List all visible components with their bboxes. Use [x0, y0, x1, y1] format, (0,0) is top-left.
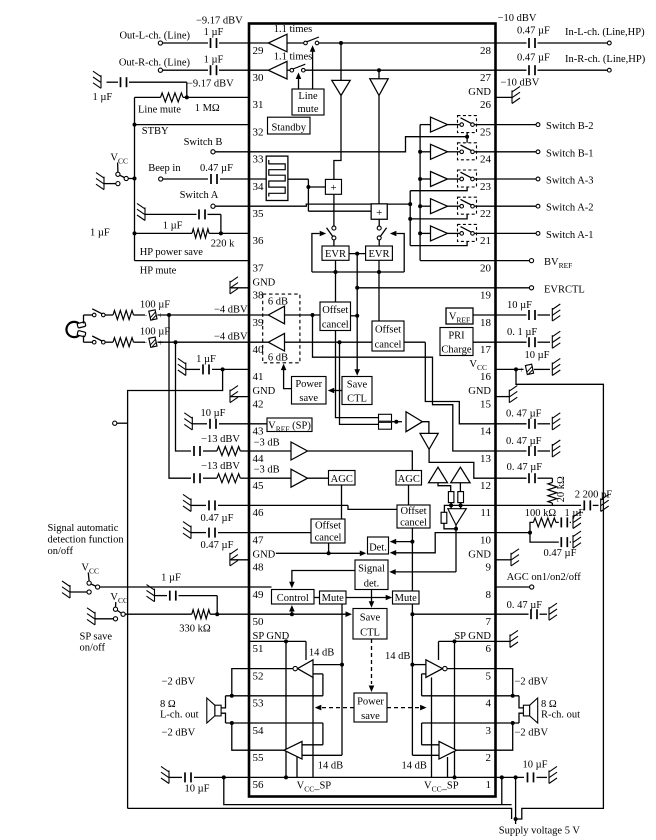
svg-text:SP GND: SP GND — [253, 631, 290, 642]
svg-text:VCC_SP: VCC_SP — [297, 781, 332, 794]
svg-text:AGC: AGC — [398, 474, 420, 485]
svg-text:CTL: CTL — [360, 628, 380, 639]
svg-text:3: 3 — [486, 725, 492, 737]
svg-text:51: 51 — [253, 643, 264, 655]
svg-text:−2 dBV: −2 dBV — [162, 728, 196, 739]
svg-text:Supply voltage 5 V: Supply voltage 5 V — [499, 826, 581, 837]
svg-text:Beep in: Beep in — [148, 163, 181, 174]
svg-text:5: 5 — [486, 670, 492, 682]
svg-text:VCC: VCC — [110, 153, 128, 166]
svg-text:−3 dB: −3 dB — [254, 438, 280, 449]
svg-text:0.47 µF: 0.47 µF — [201, 540, 234, 551]
svg-text:PRI: PRI — [448, 330, 465, 341]
svg-text:23: 23 — [480, 181, 492, 193]
svg-text:0.47 µF: 0.47 µF — [544, 548, 577, 559]
svg-text:10 µF: 10 µF — [507, 300, 532, 311]
svg-text:220 k: 220 k — [211, 239, 235, 250]
svg-text:GND: GND — [468, 386, 491, 397]
svg-text:10: 10 — [480, 534, 492, 546]
svg-text:CTL: CTL — [347, 393, 367, 404]
svg-text:8: 8 — [486, 589, 492, 601]
svg-text:−10 dBV: −10 dBV — [498, 13, 537, 24]
svg-text:Out-L-ch. (Line): Out-L-ch. (Line) — [119, 31, 190, 42]
svg-text:0. 47 µF: 0. 47 µF — [506, 436, 542, 447]
svg-text:27: 27 — [480, 72, 492, 84]
svg-text:0.47 µF: 0.47 µF — [201, 513, 234, 524]
svg-text:Charge: Charge — [441, 344, 471, 355]
svg-text:EVR: EVR — [325, 249, 346, 260]
svg-text:0.47 µF: 0.47 µF — [517, 53, 550, 64]
svg-text:+: + — [376, 207, 382, 219]
svg-text:44: 44 — [253, 453, 265, 465]
svg-text:10 µF: 10 µF — [184, 784, 209, 795]
svg-text:−2 dBV: −2 dBV — [515, 728, 549, 739]
svg-text:Switch A-2: Switch A-2 — [546, 203, 594, 214]
svg-text:Line mute: Line mute — [138, 105, 181, 116]
svg-text:46: 46 — [253, 507, 265, 519]
svg-text:−: − — [143, 338, 148, 347]
svg-text:cancel: cancel — [400, 517, 427, 528]
svg-text:14 dB: 14 dB — [309, 648, 334, 659]
svg-text:42: 42 — [253, 398, 264, 410]
svg-text:14 dB: 14 dB — [402, 761, 427, 772]
svg-text:+: + — [330, 182, 336, 194]
svg-text:Power: Power — [357, 696, 384, 707]
svg-text:1 µF: 1 µF — [204, 27, 224, 38]
svg-text:−13 dBV: −13 dBV — [201, 461, 240, 472]
svg-text:AGC: AGC — [331, 474, 353, 485]
svg-text:SP GND: SP GND — [454, 631, 491, 642]
svg-text:30: 30 — [253, 72, 265, 84]
svg-text:20 kΩ: 20 kΩ — [556, 476, 567, 502]
svg-text:21: 21 — [480, 235, 491, 247]
svg-text:In-L-ch. (Line,HP): In-L-ch. (Line,HP) — [565, 27, 645, 38]
svg-text:56: 56 — [253, 779, 265, 791]
svg-text:cancel: cancel — [315, 532, 342, 543]
svg-text:on/off: on/off — [48, 546, 74, 557]
svg-text:save: save — [361, 711, 380, 722]
svg-text:1 µF: 1 µF — [196, 354, 216, 365]
svg-text:Offset: Offset — [315, 520, 341, 531]
svg-text:0. 47 µF: 0. 47 µF — [507, 600, 543, 611]
svg-text:Signal: Signal — [358, 564, 385, 575]
svg-text:Line: Line — [298, 91, 318, 102]
svg-text:8 Ω: 8 Ω — [541, 699, 557, 710]
svg-text:BVREF: BVREF — [544, 257, 572, 270]
svg-text:100 kΩ: 100 kΩ — [525, 508, 557, 519]
svg-text:Offset: Offset — [322, 305, 348, 316]
svg-text:1 µF: 1 µF — [163, 221, 183, 232]
svg-text:cancel: cancel — [375, 340, 402, 351]
svg-text:−3 dB: −3 dB — [254, 465, 280, 476]
svg-text:52: 52 — [253, 670, 264, 682]
svg-text:14: 14 — [480, 426, 492, 438]
svg-text:−: − — [535, 366, 540, 375]
svg-text:50: 50 — [253, 616, 265, 628]
svg-text:0.47 µF: 0.47 µF — [517, 26, 550, 37]
svg-text:−4 dBV: −4 dBV — [214, 332, 248, 343]
svg-text:Mute: Mute — [322, 593, 345, 604]
svg-text:Signal automatic: Signal automatic — [48, 523, 119, 534]
svg-text:2 200 pF: 2 200 pF — [575, 490, 613, 501]
svg-text:GND: GND — [253, 277, 276, 288]
svg-text:on/off: on/off — [80, 642, 106, 653]
svg-text:L-ch. out: L-ch. out — [160, 710, 199, 721]
svg-text:12: 12 — [480, 480, 491, 492]
svg-text:35: 35 — [253, 208, 265, 220]
svg-text:detection function: detection function — [48, 535, 125, 546]
svg-text:29: 29 — [253, 45, 265, 57]
svg-text:330 kΩ: 330 kΩ — [179, 624, 211, 635]
svg-text:43: 43 — [253, 426, 265, 438]
svg-text:24: 24 — [480, 154, 492, 166]
svg-text:33: 33 — [253, 154, 265, 166]
svg-text:Power: Power — [295, 379, 322, 390]
svg-text:48: 48 — [253, 562, 265, 574]
svg-text:Offset: Offset — [400, 506, 426, 517]
svg-text:6: 6 — [486, 643, 492, 655]
svg-text:+: + — [519, 366, 524, 375]
svg-text:VCC: VCC — [81, 563, 99, 576]
svg-text:−9.17 dBV: −9.17 dBV — [196, 16, 243, 27]
svg-text:13: 13 — [480, 453, 492, 465]
svg-text:R-ch. out: R-ch. out — [541, 710, 580, 721]
svg-text:1 µF: 1 µF — [565, 508, 585, 519]
svg-text:8 Ω: 8 Ω — [160, 699, 176, 710]
svg-text:16: 16 — [480, 371, 492, 383]
svg-text:10 µF: 10 µF — [522, 760, 547, 771]
svg-text:10 µF: 10 µF — [200, 408, 225, 419]
svg-text:VCC: VCC — [110, 592, 128, 605]
svg-text:−2 dBV: −2 dBV — [515, 677, 549, 688]
svg-text:41: 41 — [253, 371, 264, 383]
svg-text:31: 31 — [253, 99, 264, 111]
svg-text:14 dB: 14 dB — [385, 651, 410, 662]
svg-text:9: 9 — [486, 562, 492, 574]
svg-text:Standby: Standby — [272, 122, 307, 133]
svg-text:55: 55 — [253, 752, 265, 764]
svg-text:100 µF: 100 µF — [140, 300, 170, 311]
svg-text:1 µF: 1 µF — [93, 92, 113, 103]
svg-text:0. 1 µF: 0. 1 µF — [507, 327, 537, 338]
svg-text:−4 dBV: −4 dBV — [214, 305, 248, 316]
svg-text:18: 18 — [480, 317, 492, 329]
svg-text:1 µF: 1 µF — [161, 573, 181, 584]
svg-text:GND: GND — [253, 386, 276, 397]
svg-text:32: 32 — [253, 126, 264, 138]
svg-text:mute: mute — [298, 104, 319, 115]
svg-text:STBY: STBY — [142, 126, 169, 137]
svg-text:In-R-ch. (Line,HP): In-R-ch. (Line,HP) — [565, 54, 646, 65]
svg-text:1 µF: 1 µF — [90, 228, 110, 239]
svg-text:−2 dBV: −2 dBV — [162, 677, 196, 688]
svg-text:+: + — [158, 338, 163, 347]
svg-text:Mute: Mute — [395, 593, 418, 604]
svg-text:1.1 times: 1.1 times — [274, 24, 313, 35]
svg-text:10 µF: 10 µF — [525, 350, 550, 361]
svg-text:Switch B-1: Switch B-1 — [546, 148, 594, 159]
svg-text:47: 47 — [253, 534, 265, 546]
svg-text:49: 49 — [253, 589, 265, 601]
svg-text:Save: Save — [347, 379, 368, 390]
svg-text:22: 22 — [480, 208, 491, 220]
svg-text:Offset: Offset — [375, 325, 401, 336]
svg-text:+: + — [158, 311, 163, 320]
svg-text:−9.17 dBV: −9.17 dBV — [187, 79, 234, 90]
svg-text:14 dB: 14 dB — [318, 761, 343, 772]
svg-text:det.: det. — [364, 578, 379, 589]
svg-text:−: − — [143, 311, 148, 320]
svg-text:Switch A: Switch A — [180, 190, 219, 201]
svg-text:AGC on1/on2/off: AGC on1/on2/off — [507, 572, 582, 583]
svg-text:1 MΩ: 1 MΩ — [195, 103, 220, 114]
svg-text:Det.: Det. — [369, 542, 387, 553]
svg-text:EVR: EVR — [369, 249, 390, 260]
svg-text:VREF (SP): VREF (SP) — [268, 420, 311, 433]
svg-text:26: 26 — [480, 99, 492, 111]
svg-text:Save: Save — [360, 612, 381, 623]
svg-text:100 µF: 100 µF — [140, 327, 170, 338]
svg-text:36: 36 — [253, 235, 265, 247]
svg-text:Switch A-1: Switch A-1 — [546, 230, 594, 241]
svg-text:34: 34 — [253, 181, 265, 193]
svg-text:Switch A-3: Switch A-3 — [546, 176, 594, 187]
svg-text:Switch B-2: Switch B-2 — [546, 121, 594, 132]
svg-text:VCC_SP: VCC_SP — [424, 781, 459, 794]
svg-text:Control: Control — [277, 593, 309, 604]
svg-text:GND: GND — [253, 549, 276, 560]
svg-text:15: 15 — [480, 398, 492, 410]
svg-text:1 µF: 1 µF — [204, 54, 224, 65]
svg-text:SP save: SP save — [80, 632, 113, 643]
svg-text:1.1 times: 1.1 times — [274, 52, 313, 63]
svg-text:7: 7 — [486, 616, 492, 628]
svg-text:0. 47 µF: 0. 47 µF — [507, 462, 543, 473]
svg-text:2: 2 — [486, 752, 492, 764]
svg-text:6 dB: 6 dB — [268, 352, 288, 363]
svg-text:37: 37 — [253, 262, 265, 274]
svg-text:28: 28 — [480, 45, 492, 57]
svg-text:EVRCTL: EVRCTL — [544, 284, 585, 295]
svg-text:GND: GND — [468, 549, 491, 560]
svg-text:11: 11 — [480, 507, 491, 519]
svg-text:17: 17 — [480, 344, 492, 356]
svg-text:20: 20 — [480, 262, 492, 274]
svg-text:45: 45 — [253, 480, 265, 492]
svg-text:cancel: cancel — [322, 319, 349, 330]
svg-text:VCC: VCC — [469, 359, 487, 372]
svg-text:25: 25 — [480, 126, 492, 138]
svg-text:save: save — [299, 393, 318, 404]
svg-text:54: 54 — [253, 725, 265, 737]
svg-text:1: 1 — [486, 779, 492, 791]
svg-text:HP mute: HP mute — [140, 266, 177, 277]
svg-text:Out-R-ch. (Line): Out-R-ch. (Line) — [119, 58, 191, 69]
svg-text:−13 dBV: −13 dBV — [201, 434, 240, 445]
svg-text:HP power save: HP power save — [140, 247, 204, 258]
svg-text:GND: GND — [468, 87, 491, 98]
svg-text:19: 19 — [480, 290, 492, 302]
svg-text:0.47 µF: 0.47 µF — [200, 163, 233, 174]
svg-text:4: 4 — [486, 698, 492, 710]
svg-text:0. 47 µF: 0. 47 µF — [506, 409, 542, 420]
svg-text:Switch B: Switch B — [184, 137, 223, 148]
svg-text:53: 53 — [253, 698, 265, 710]
